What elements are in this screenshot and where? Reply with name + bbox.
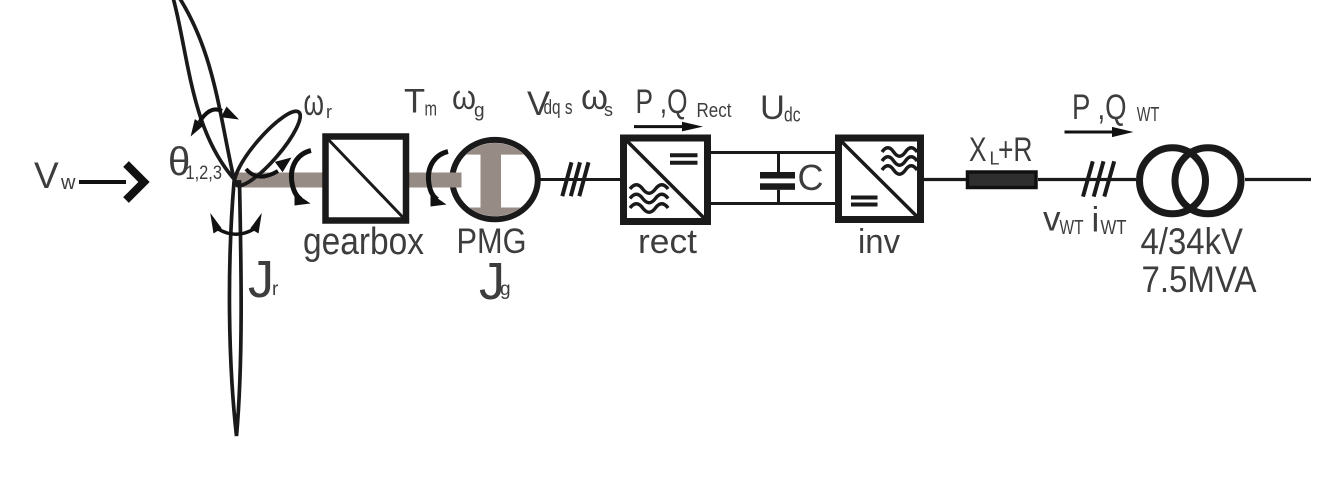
pitch arrow lower blade	[210, 213, 262, 234]
svg-text:s: s	[604, 100, 613, 120]
svg-text:1,2,3: 1,2,3	[186, 163, 223, 184]
rect DC symbol	[670, 155, 698, 163]
wind speed label Vw	[34, 155, 76, 196]
P,Q Rect label	[636, 83, 732, 122]
svg-text:U: U	[760, 89, 785, 127]
svg-text:ω: ω	[452, 79, 476, 117]
svg-text:v: v	[1043, 200, 1061, 239]
XL+R label	[969, 131, 1033, 169]
svg-text:dq s: dq s	[544, 97, 573, 119]
transformer rating label	[1141, 220, 1257, 300]
svg-text:inv: inv	[858, 223, 900, 261]
Jr label	[248, 251, 279, 309]
wind arrow	[79, 164, 144, 200]
rotor shaft (low speed, gray)	[237, 173, 327, 188]
theta 1,2,3 label	[168, 140, 222, 184]
vWT iWT label	[1043, 200, 1127, 240]
shaft overlapping PMG rim	[446, 173, 462, 188]
gearbox box	[326, 137, 407, 221]
svg-text:P ,Q: P ,Q	[636, 83, 688, 121]
three-phase marks at WT	[1083, 161, 1114, 196]
omega_s label	[581, 78, 613, 120]
Tm label	[404, 83, 437, 121]
svg-text:r: r	[272, 279, 279, 300]
line impedance XL+R block	[968, 172, 1037, 188]
DC bus top wire	[711, 151, 835, 154]
svg-text:C: C	[798, 157, 824, 198]
svg-text:WT: WT	[1060, 217, 1084, 239]
svg-text:X: X	[969, 131, 987, 169]
svg-text:T: T	[404, 83, 425, 121]
svg-text:Rect: Rect	[697, 100, 732, 122]
wire grid	[1245, 178, 1311, 181]
pitch arrow upper blade	[191, 107, 239, 137]
svg-text:7.5MVA: 7.5MVA	[1142, 258, 1257, 300]
svg-text:dc: dc	[784, 105, 801, 127]
blade upper	[169, 0, 235, 179]
svg-text:P ,Q: P ,Q	[1072, 88, 1127, 127]
PMG circle	[452, 140, 538, 219]
rotation arrow at generator shaft	[428, 152, 448, 207]
rectifier box U1	[624, 138, 708, 222]
svg-text:rect: rect	[638, 223, 698, 261]
shaft gearbox-PMG (gray)	[405, 173, 457, 188]
pitch arrow right blade	[246, 158, 292, 177]
svg-text:g: g	[500, 279, 511, 300]
rect AC waves	[630, 185, 668, 213]
svg-text:i: i	[1092, 201, 1100, 240]
omega_g label	[452, 79, 485, 122]
svg-text:WT: WT	[1137, 104, 1160, 126]
inverter box U2	[839, 138, 921, 220]
blade right (foreshortened)	[227, 104, 308, 193]
omega_r label	[304, 82, 333, 123]
blade lower	[229, 182, 241, 436]
DC bus bottom wire	[711, 202, 835, 205]
svg-text:gearbox: gearbox	[303, 221, 424, 263]
Vdqs label	[527, 85, 573, 123]
wire XL+R to transformer	[1038, 178, 1136, 181]
gearbox diagonal	[324, 135, 405, 219]
transformer T1 secondary winding	[1175, 148, 1241, 214]
svg-text:WT: WT	[1101, 217, 1127, 239]
wire PMG to rect	[539, 178, 620, 181]
inv DC symbol	[851, 198, 878, 205]
svg-text:+R: +R	[998, 131, 1033, 169]
svg-text:g: g	[474, 101, 485, 122]
Udc label	[760, 89, 801, 127]
PMG rotor I-bar	[458, 143, 532, 220]
Jg label	[479, 253, 511, 311]
inv AC waves	[882, 148, 917, 175]
rotation arrow omega_r	[291, 151, 311, 206]
svg-text:w: w	[60, 172, 76, 194]
capacitor C	[760, 153, 795, 204]
rect diagonal	[622, 136, 709, 223]
P,Q Rect arrow	[634, 122, 703, 132]
svg-text:m: m	[425, 99, 438, 121]
svg-text:4/34kV: 4/34kV	[1141, 220, 1244, 262]
svg-text:V: V	[34, 155, 59, 196]
three-phase marks	[562, 162, 588, 196]
svg-text:ω: ω	[304, 82, 325, 123]
inv diagonal	[836, 136, 922, 222]
svg-text:r: r	[326, 102, 332, 122]
P,Q WT label	[1072, 88, 1159, 127]
P,Q WT arrow	[1065, 127, 1134, 137]
transformer T1 primary winding	[1140, 148, 1206, 214]
wire inv to XL+R	[924, 178, 967, 181]
svg-text:J: J	[248, 251, 274, 309]
